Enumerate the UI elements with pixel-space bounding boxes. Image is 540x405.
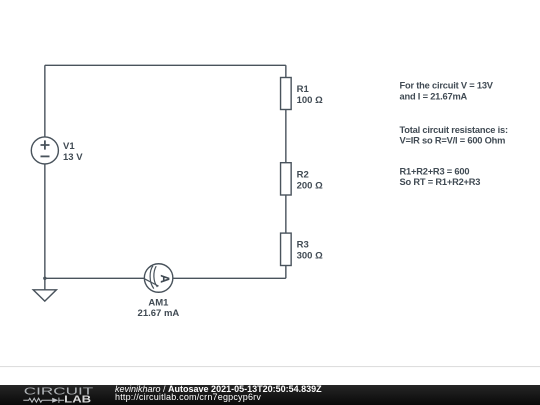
svg-text:For the circuit V = 13V: For the circuit V = 13V [400,81,494,91]
svg-text:V1: V1 [63,141,75,152]
svg-text:V=IR so R=V/I = 600 Ohm: V=IR so R=V/I = 600 Ohm [400,135,506,145]
svg-text:21.67 mA: 21.67 mA [138,308,180,319]
svg-text:300 Ω: 300 Ω [297,251,323,262]
svg-text:R1: R1 [297,84,310,95]
svg-text:and I = 21.67mA: and I = 21.67mA [400,91,468,101]
svg-text:LAB: LAB [64,394,91,404]
svg-text:So RT = R1+R2+R3: So RT = R1+R2+R3 [400,177,481,187]
svg-text:R3: R3 [297,240,309,251]
svg-text:13 V: 13 V [63,152,83,163]
svg-text:Total circuit resistance is:: Total circuit resistance is: [400,125,509,135]
svg-text:R1+R2+R3 = 600: R1+R2+R3 = 600 [400,166,470,176]
svg-text:AM1: AM1 [148,298,169,309]
svg-text:100 Ω: 100 Ω [297,95,323,106]
svg-text:R2: R2 [297,170,309,181]
svg-text:200 Ω: 200 Ω [297,180,323,191]
